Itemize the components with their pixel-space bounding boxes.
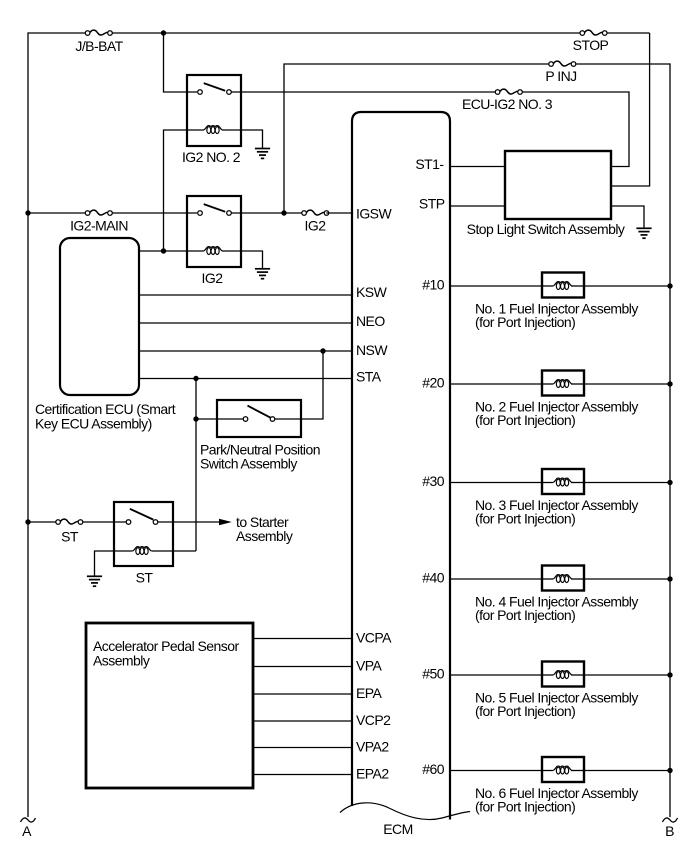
node top rail / IG2 NO.2 feed — [161, 30, 166, 35]
svg-text:VPA: VPA — [356, 658, 383, 674]
injector coil box 1 — [542, 273, 584, 298]
svg-text:IG2 NO. 2: IG2 NO. 2 — [182, 149, 241, 165]
wire STA — [139, 378, 352, 380]
svg-text:STOP: STOP — [573, 37, 609, 53]
svg-text:B: B — [665, 823, 674, 839]
relay IG2 box — [187, 196, 241, 267]
label injector 5 line2 — [475, 703, 575, 719]
node injector 5 / rail B — [667, 672, 672, 677]
svg-text:STP: STP — [419, 196, 445, 212]
node STA / starter branch — [193, 376, 198, 381]
arrow to starter — [219, 519, 232, 526]
label injector 6 line1 — [475, 785, 638, 801]
svg-text:NEO: NEO — [356, 313, 385, 329]
wire IG2 NO. 2 coil left leg — [164, 130, 205, 251]
wire stop light switch ground leg — [611, 206, 644, 228]
park/neutral switch contacts — [243, 406, 275, 422]
fuse STOP — [580, 30, 607, 35]
node left rail / IG2-MAIN — [25, 210, 30, 215]
fuse ECU-IG2 NO. 3 — [495, 89, 522, 94]
label to starter line1 — [236, 514, 289, 530]
wire accel VCP2 — [253, 720, 352, 722]
svg-text:(for Port Injection): (for Port Injection) — [475, 607, 575, 623]
label to starter line2 — [236, 528, 293, 544]
node coil feed junction — [161, 248, 166, 253]
wire P INJ — [284, 64, 670, 213]
label certification ECU line1 — [35, 401, 176, 417]
svg-text:ECM: ECM — [383, 821, 412, 837]
wire accel VPA — [253, 666, 352, 668]
wire ST1- to stop light switch — [450, 166, 505, 168]
pin VPA — [356, 658, 383, 674]
wire left rail A — [27, 32, 29, 817]
label park/neutral line2 — [200, 456, 297, 472]
label accel line1 — [93, 638, 239, 654]
fuse ST — [56, 519, 83, 524]
pin IGSW — [356, 206, 392, 222]
svg-text:ST: ST — [61, 528, 79, 544]
label STOP — [573, 37, 609, 53]
label park/neutral line1 — [200, 442, 320, 458]
label J/B-BAT — [75, 38, 123, 54]
pin VCPA — [356, 630, 392, 646]
pin NSW — [356, 342, 388, 358]
svg-text:Assembly: Assembly — [93, 653, 150, 669]
fuse IG2 — [302, 210, 329, 215]
svg-text:(for Port Injection): (for Port Injection) — [475, 510, 575, 526]
label injector 1 line2 — [475, 314, 575, 330]
fuse J/B-BAT — [85, 30, 112, 35]
label #20 — [422, 375, 444, 391]
injector coil box 6 — [542, 757, 584, 782]
node injector 2 / rail B — [667, 381, 672, 386]
wire IG2 coil right to ground — [222, 251, 263, 268]
label IG2-MAIN — [70, 217, 128, 233]
wire ECM to injector 4 — [450, 578, 542, 580]
label A — [22, 823, 32, 839]
injector coil box 3 — [542, 469, 584, 494]
wire injector 5 to rail B — [584, 674, 670, 676]
wire ECM to injector 5 — [450, 674, 542, 676]
label #50 — [422, 666, 444, 682]
relay IG2 NO. 2 switch — [198, 83, 232, 94]
svg-text:EPA: EPA — [356, 685, 383, 701]
svg-text:Switch Assembly: Switch Assembly — [200, 456, 297, 472]
wire J/B-BAT top rail — [28, 32, 650, 34]
svg-text:J/B-BAT: J/B-BAT — [75, 38, 123, 54]
label ST fuse — [61, 528, 79, 544]
label #10 — [422, 277, 444, 293]
svg-text:(for Port Injection): (for Port Injection) — [475, 412, 575, 428]
wire park/neutral out — [275, 351, 323, 419]
wire IG2 fuse to ECM IGSW — [326, 212, 352, 214]
label IG2 fuse — [305, 217, 327, 233]
pin EPA2 — [356, 766, 389, 782]
wire cert ECU to relay coils — [139, 250, 204, 252]
node left rail / ST — [25, 519, 30, 524]
pin STP — [419, 196, 445, 212]
relay ST box — [114, 502, 173, 566]
label #30 — [422, 473, 444, 489]
relay IG2 switch — [198, 204, 232, 215]
wire accel VCPA — [253, 638, 352, 640]
label P INJ — [545, 68, 576, 84]
wire accel EPA2 — [253, 774, 352, 776]
svg-text:IGSW: IGSW — [356, 206, 392, 222]
injector coil 3 — [553, 478, 572, 486]
svg-text:EPA2: EPA2 — [356, 766, 389, 782]
svg-text:#20: #20 — [422, 375, 444, 391]
svg-text:#60: #60 — [422, 761, 444, 777]
label injector 5 line1 — [475, 689, 638, 705]
wire injector 2 to rail B — [584, 383, 670, 385]
svg-text:(for Port Injection): (for Port Injection) — [475, 798, 575, 814]
svg-text:IG2: IG2 — [305, 217, 327, 233]
wire ECU-IG2 NO. 3 drop — [611, 91, 629, 166]
wire NSW — [139, 350, 352, 352]
svg-text:#50: #50 — [422, 666, 444, 682]
injector coil box 5 — [542, 662, 584, 687]
wire IG2 relay out — [232, 212, 305, 214]
pin EPA — [356, 685, 383, 701]
svg-text:ST1-: ST1- — [415, 156, 444, 172]
relay IG2 coil — [204, 247, 223, 255]
label #40 — [422, 570, 444, 586]
wire accel VPA2 — [253, 747, 352, 749]
park/neutral switch box — [217, 400, 301, 437]
wire accel EPA — [253, 693, 352, 695]
svg-text:VCPA: VCPA — [356, 630, 392, 646]
wire ECM to injector 2 — [450, 383, 542, 385]
fuse IG2-MAIN — [85, 210, 112, 215]
svg-text:Stop Light Switch Assembly: Stop Light Switch Assembly — [467, 221, 625, 237]
svg-text:STA: STA — [356, 369, 382, 385]
fuse P INJ — [549, 61, 576, 66]
wire to park/neutral switch — [196, 418, 243, 420]
pin VCP2 — [356, 712, 391, 728]
pin STA — [356, 369, 382, 385]
wire ST coil left to ground — [95, 551, 133, 576]
node IG2 out / P INJ branch — [281, 210, 286, 215]
relay ST coil — [133, 547, 152, 555]
label accel line2 — [93, 653, 150, 669]
wire IG2 NO. 2 coil right to ground — [222, 130, 263, 148]
svg-text:#30: #30 — [422, 473, 444, 489]
wire KSW — [139, 294, 352, 296]
label Stop Light Switch Assembly — [467, 221, 625, 237]
label injector 1 line1 — [475, 300, 638, 316]
break symbol B — [663, 818, 678, 822]
label ECM — [383, 821, 412, 837]
ground IG2 relay — [255, 269, 270, 279]
label injector 4 line1 — [475, 593, 638, 609]
relay IG2 NO. 2 box — [187, 75, 241, 146]
label B — [665, 823, 674, 839]
wire injector 3 to rail B — [584, 482, 670, 484]
wire ECU-IG2 NO. 3 — [232, 91, 630, 93]
svg-text:#10: #10 — [422, 277, 444, 293]
svg-text:(for Port Injection): (for Port Injection) — [475, 703, 575, 719]
label injector 4 line2 — [475, 607, 575, 623]
relay IG2 NO. 2 coil — [204, 126, 223, 134]
label injector 3 line1 — [475, 497, 638, 513]
node injector 1 / rail B — [667, 283, 672, 288]
wire ECM to injector 1 — [450, 285, 542, 287]
break symbol A — [21, 818, 36, 822]
pin NEO — [356, 313, 385, 329]
svg-text:P INJ: P INJ — [545, 68, 576, 84]
label injector 3 line2 — [475, 510, 575, 526]
label #60 — [422, 761, 444, 777]
pin ST1- — [415, 156, 444, 172]
pin KSW — [356, 284, 388, 300]
injector coil 4 — [553, 575, 572, 583]
label IG2 relay — [202, 270, 224, 286]
wire STOP drop to stop light switch — [611, 33, 650, 186]
label certification ECU line2 — [35, 416, 152, 432]
svg-text:NSW: NSW — [356, 342, 388, 358]
accelerator pedal sensor box — [86, 623, 253, 788]
svg-text:IG2-MAIN: IG2-MAIN — [70, 217, 128, 233]
wire starter out — [158, 521, 220, 523]
injector coil 2 — [553, 380, 572, 388]
svg-text:KSW: KSW — [356, 284, 388, 300]
certification ECU box — [60, 238, 139, 395]
wire ST fuse run — [28, 521, 126, 523]
wire ECM to injector 6 — [450, 770, 542, 772]
node injector 6 / rail B — [667, 768, 672, 773]
svg-text:Assembly: Assembly — [236, 528, 293, 544]
injector coil 5 — [553, 671, 572, 679]
wire ST coil right leg — [152, 550, 197, 552]
ground IG2 NO. 2 — [255, 149, 270, 159]
label IG2 NO. 2 — [182, 149, 241, 165]
svg-text:VCP2: VCP2 — [356, 712, 391, 728]
svg-text:Key ECU Assembly): Key ECU Assembly) — [35, 416, 152, 432]
svg-text:VPA2: VPA2 — [356, 739, 389, 755]
wire IG2-MAIN — [28, 212, 197, 214]
node NSW / park-neutral — [320, 348, 325, 353]
relay ST switch — [126, 509, 158, 525]
label injector 2 line1 — [475, 398, 638, 414]
svg-text:ECU-IG2 NO. 3: ECU-IG2 NO. 3 — [462, 96, 553, 112]
svg-text:(for Port Injection): (for Port Injection) — [475, 314, 575, 330]
injector coil box 2 — [542, 371, 584, 396]
injector coil 6 — [553, 766, 572, 774]
node park neutral feed — [193, 416, 198, 421]
svg-text:#40: #40 — [422, 570, 444, 586]
node injector 3 / rail B — [667, 480, 672, 485]
svg-text:ST: ST — [136, 570, 154, 586]
label injector 2 line2 — [475, 412, 575, 428]
wire IG2 NO.2 switch feed — [164, 33, 198, 92]
wire STP to stop light switch — [450, 205, 505, 207]
label injector 6 line2 — [475, 798, 575, 814]
wire ECM to injector 3 — [450, 482, 542, 484]
wire injector 4 to rail B — [584, 578, 670, 580]
svg-text:IG2: IG2 — [202, 270, 224, 286]
label ST relay — [136, 570, 154, 586]
pin VPA2 — [356, 739, 389, 755]
injector coil 1 — [553, 282, 572, 290]
wire NEO — [139, 322, 352, 324]
wire injector 1 to rail B — [584, 285, 670, 287]
stop light switch box — [505, 151, 611, 219]
ground ST relay — [87, 576, 102, 586]
wire right rail B — [669, 63, 671, 817]
svg-text:A: A — [22, 823, 32, 839]
injector coil box 4 — [542, 566, 584, 591]
wire injector 6 to rail B — [584, 770, 670, 772]
node injector 4 / rail B — [667, 576, 672, 581]
ground stop light switch — [636, 228, 651, 238]
wire STA branch down — [195, 379, 197, 552]
label ECU-IG2 NO. 3 — [462, 96, 553, 112]
ECM box U1 — [340, 112, 470, 820]
